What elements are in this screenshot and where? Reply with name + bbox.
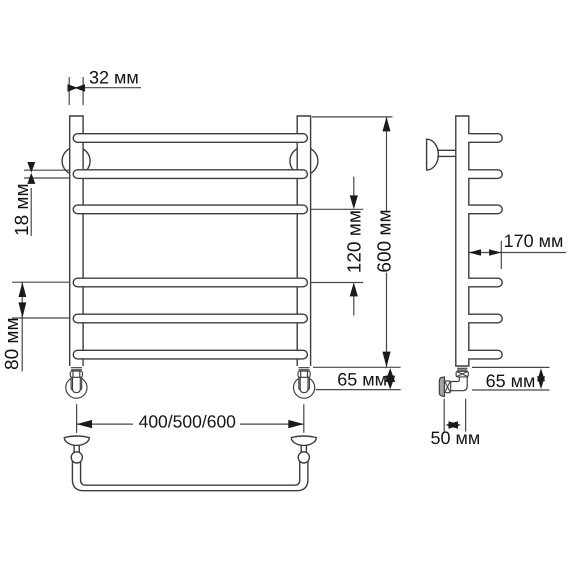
arrow 18mm up xyxy=(27,173,35,184)
arrow 80mm down xyxy=(19,302,27,318)
dim 80mm stem xyxy=(21,282,23,371)
arrow 170mm left xyxy=(469,249,481,256)
dim 170mm line xyxy=(469,252,566,254)
dim 600mm top extension line xyxy=(312,116,393,118)
rung bar 5 xyxy=(73,314,307,323)
svg-text:120 мм: 120 мм xyxy=(344,210,365,273)
arrow 600mm top xyxy=(383,117,391,131)
bottom (top view) U-tube inner xyxy=(81,459,300,486)
dim 32mm line xyxy=(69,87,141,89)
dim 120mm stems xyxy=(353,177,355,316)
right bottom valve (front view) xyxy=(294,368,315,399)
dim 80mm extension lines xyxy=(12,282,70,318)
arrow 80mm up xyxy=(19,282,27,297)
bottom (top view) stems xyxy=(74,445,306,452)
side view comb profile (rail + rungs) xyxy=(456,116,502,366)
dim 50mm extension lines xyxy=(444,399,465,432)
dim 120mm extension lines xyxy=(311,209,363,282)
arrow 32mm right xyxy=(75,84,85,92)
arrow 120mm upper xyxy=(350,195,358,209)
rung bar 3 xyxy=(73,205,307,214)
arrow 600mm bottom xyxy=(382,352,390,368)
bottom (top view) left ball joint xyxy=(71,452,82,463)
dim 600mm line xyxy=(386,117,388,367)
rung bar 1 xyxy=(73,134,307,143)
side view wall bracket dome xyxy=(427,139,439,170)
left bottom valve (front view) xyxy=(66,368,87,399)
svg-text:65 мм: 65 мм xyxy=(486,371,536,391)
bottom (top view) right ball joint xyxy=(298,452,309,463)
arrow 170mm right xyxy=(489,249,501,256)
arrow 65mm front up xyxy=(385,368,395,382)
svg-text:170 мм: 170 мм xyxy=(504,231,564,251)
right collector rail (front view) xyxy=(297,116,310,366)
dim 18mm stem xyxy=(30,188,32,236)
rung bar 4 xyxy=(73,278,307,287)
svg-text:32 мм: 32 мм xyxy=(89,67,139,87)
arrow 400 left xyxy=(77,420,93,428)
arrow 400 right xyxy=(288,420,304,428)
svg-text:50 мм: 50 мм xyxy=(431,428,481,448)
dim 65mm (front) lines xyxy=(313,367,401,389)
dim 400/500/600 line xyxy=(77,423,304,425)
wall bracket circle right (front view) xyxy=(290,147,318,175)
rung bar 2 xyxy=(73,170,307,179)
svg-text:400/500/600: 400/500/600 xyxy=(139,411,237,431)
dim 400/500/600 extension lines xyxy=(77,404,304,433)
side view wall bracket stem xyxy=(437,150,456,156)
arrow 120mm lower xyxy=(350,283,358,297)
dim 32mm extension lines xyxy=(69,77,83,105)
left collector rail (front view) xyxy=(70,116,83,366)
svg-text:65 мм: 65 мм xyxy=(337,369,387,389)
dim 170mm extension line xyxy=(500,241,502,269)
arrow 65mm side up xyxy=(537,368,545,381)
bottom (top view) U-tube outer xyxy=(72,459,308,491)
bottom (top view) right bracket dome xyxy=(291,436,316,445)
svg-text:80 мм: 80 мм xyxy=(2,317,23,370)
arrow 18mm down xyxy=(27,162,35,173)
dim 65mm (side) lines xyxy=(472,367,550,390)
rung bar 6 xyxy=(73,350,307,359)
arrow 65mm side down xyxy=(537,376,545,389)
side view bottom elbow valve xyxy=(439,368,468,396)
arrow 50mm left xyxy=(445,421,458,428)
gray wall plate xyxy=(439,377,444,397)
arrow 65mm front down xyxy=(385,376,395,390)
svg-text:600 мм: 600 мм xyxy=(374,209,395,272)
arrow 32mm left xyxy=(68,84,78,92)
arrow 50mm right xyxy=(449,421,462,428)
dim 18mm extension lines xyxy=(24,170,70,178)
wall bracket circle left (front view) xyxy=(62,147,90,175)
svg-text:18 мм: 18 мм xyxy=(12,183,33,236)
bottom (top view) left bracket dome xyxy=(64,436,89,445)
